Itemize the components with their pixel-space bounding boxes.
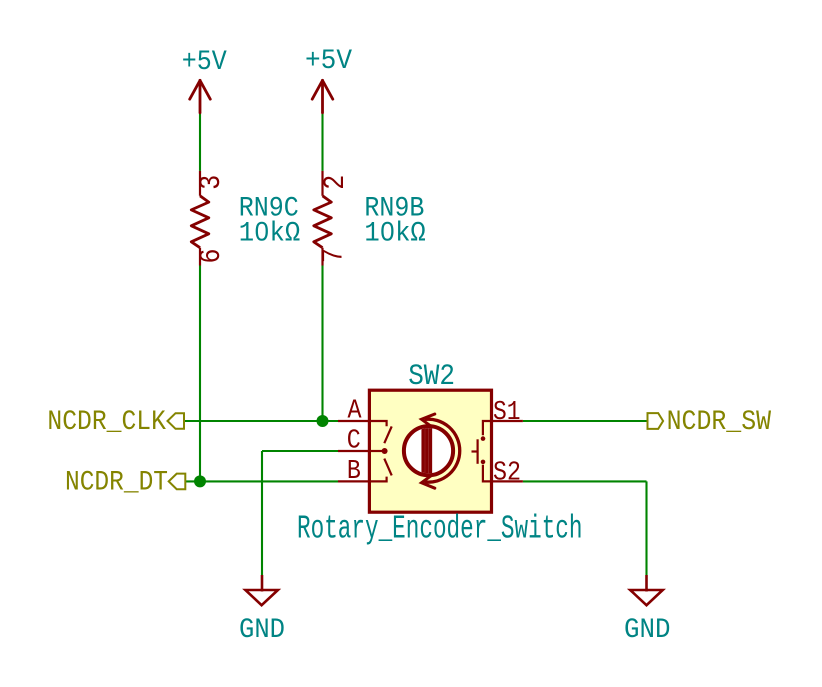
svg-text:GND: GND [239, 615, 285, 646]
svg-text:Rotary_Encoder_Switch: Rotary_Encoder_Switch [297, 510, 583, 547]
svg-text:3: 3 [195, 175, 229, 190]
svg-text:B: B [347, 457, 361, 487]
svg-text:S2: S2 [493, 459, 521, 489]
svg-text:10kΩ: 10kΩ [364, 219, 426, 250]
svg-text:SW2: SW2 [408, 360, 455, 394]
svg-text:NCDR_CLK: NCDR_CLK [47, 407, 166, 438]
svg-text:2: 2 [319, 175, 353, 190]
svg-text:+5V: +5V [182, 47, 227, 78]
svg-text:GND: GND [624, 615, 671, 646]
svg-text:C: C [347, 426, 361, 456]
svg-text:7: 7 [318, 248, 352, 263]
svg-text:NCDR_SW: NCDR_SW [667, 407, 772, 438]
svg-text:A: A [348, 396, 363, 426]
svg-text:10kΩ: 10kΩ [239, 219, 301, 250]
svg-text:6: 6 [195, 249, 229, 264]
svg-text:NCDR_DT: NCDR_DT [65, 467, 168, 498]
svg-text:+5V: +5V [305, 46, 352, 77]
svg-text:S1: S1 [493, 398, 521, 428]
